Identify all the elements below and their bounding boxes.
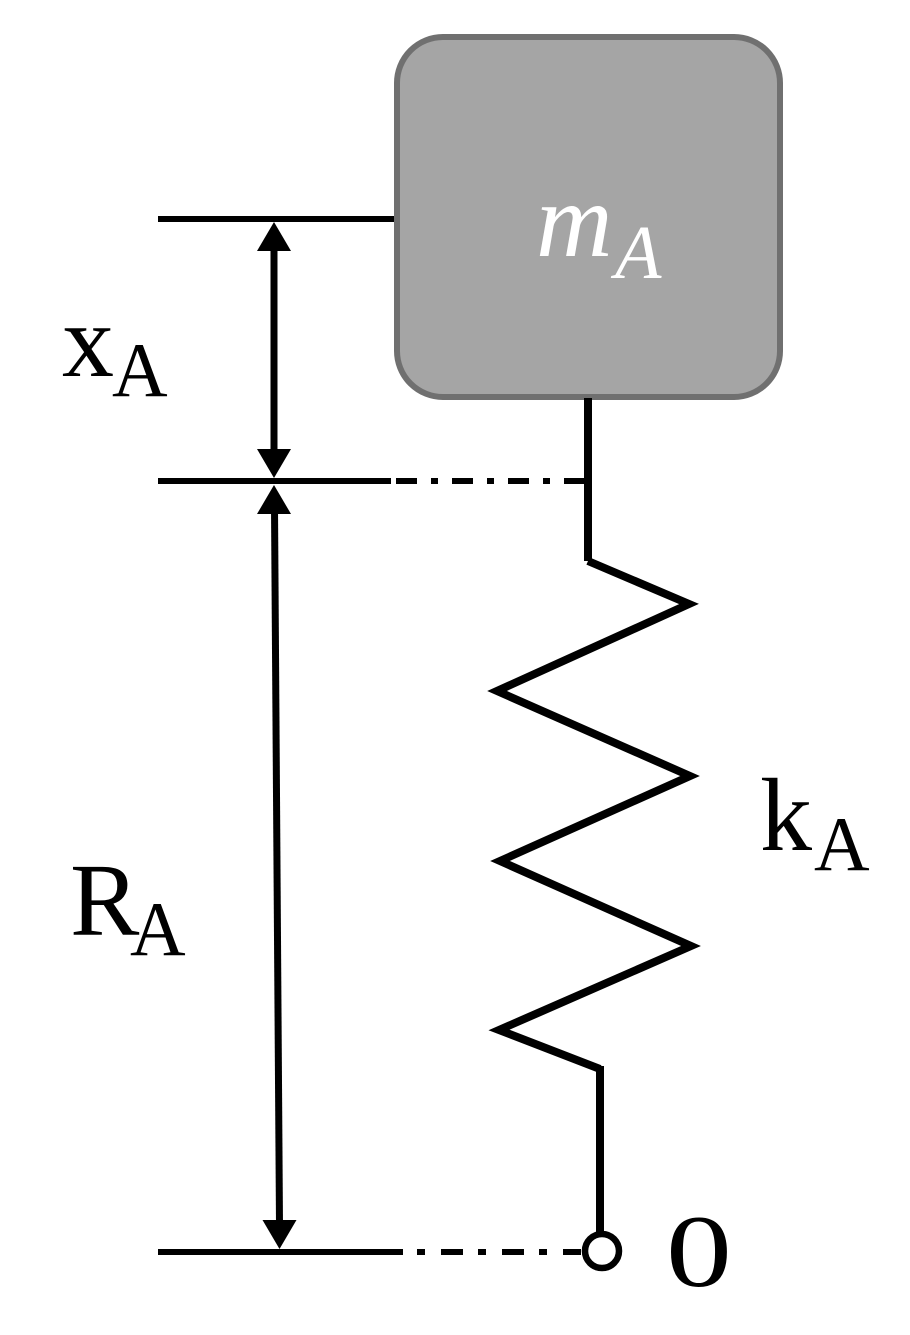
label RA (70, 843, 186, 972)
svg-text:0: 0 (666, 1195, 732, 1309)
svg-text:A: A (610, 211, 662, 295)
mass mA block (397, 37, 780, 397)
bottom dash-dot line (417, 1249, 581, 1255)
label mA (536, 162, 662, 295)
wire mass to spring (584, 398, 592, 561)
middle dash-dot line (396, 478, 588, 484)
dimension arrow xA (257, 222, 291, 478)
bottom reference line (158, 1249, 403, 1255)
svg-text:m: m (536, 162, 613, 279)
middle reference line (158, 478, 391, 484)
node 0 circle (585, 1234, 619, 1268)
dimension arrow RA (257, 485, 297, 1249)
wire spring to node 0 (596, 1066, 604, 1233)
svg-text:A: A (814, 801, 870, 887)
svg-text:A: A (112, 327, 168, 413)
label xA (62, 284, 168, 413)
top reference line (158, 216, 394, 222)
svg-text:k: k (760, 758, 812, 873)
svg-text:A: A (130, 886, 186, 972)
svg-text:x: x (62, 284, 114, 399)
spring kA (497, 561, 691, 1069)
label kA (760, 758, 870, 887)
